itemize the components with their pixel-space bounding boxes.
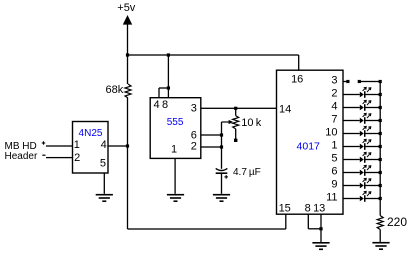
svg-text:4.7 µF: 4.7 µF [233,167,261,178]
svg-text:3: 3 [331,74,337,86]
svg-text:14: 14 [279,104,291,116]
svg-text:16: 16 [291,74,303,86]
svg-text:2: 2 [74,152,80,164]
svg-text:5: 5 [331,152,337,164]
svg-text:Header: Header [5,151,38,162]
svg-text:68k: 68k [106,84,124,96]
svg-text:6: 6 [331,165,337,177]
svg-text:+5v: +5v [117,2,136,14]
svg-text:5: 5 [100,158,106,170]
svg-text:7: 7 [331,113,337,125]
svg-text:1: 1 [171,143,177,155]
svg-text:2: 2 [191,141,197,153]
svg-text:1: 1 [74,139,80,151]
svg-text:8: 8 [162,99,168,111]
svg-text:4: 4 [101,139,107,151]
svg-text:555: 555 [167,117,184,128]
svg-text:1: 1 [331,139,337,151]
svg-text:220: 220 [387,215,407,229]
svg-text:13: 13 [313,203,325,215]
svg-text:8: 8 [305,203,311,215]
svg-text:15: 15 [279,203,291,215]
svg-text:4: 4 [153,99,159,111]
svg-text:2: 2 [331,87,337,99]
svg-text:4017: 4017 [297,141,321,153]
svg-text:9: 9 [331,178,337,190]
svg-text:10 k: 10 k [241,117,261,129]
svg-text:4: 4 [331,100,337,112]
svg-text:11: 11 [326,191,337,203]
svg-text:6: 6 [191,129,197,141]
svg-text:4N25: 4N25 [79,128,103,139]
svg-text:10: 10 [325,126,337,138]
svg-text:3: 3 [191,102,197,114]
